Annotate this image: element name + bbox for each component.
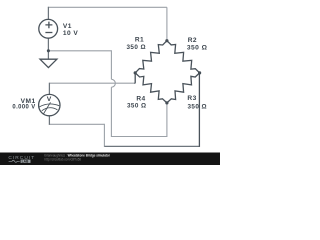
wire V1 bottom to ground xyxy=(47,38,49,59)
svg-text:10 V: 10 V xyxy=(63,30,79,37)
wire V1 top stub xyxy=(47,7,49,20)
svg-text:350 Ω: 350 Ω xyxy=(127,103,147,110)
wire top horizontal xyxy=(48,6,167,8)
voltmeter VM1 circle xyxy=(39,94,60,115)
wire down to VM1 top xyxy=(48,83,50,95)
resistor R3 zigzag xyxy=(167,73,200,103)
svg-text:LAB: LAB xyxy=(22,159,29,163)
wire VM1 bottom right xyxy=(49,123,105,125)
svg-text:http://circuitlab.com/c8f7u58: http://circuitlab.com/c8f7u58 xyxy=(45,157,82,161)
svg-text:350 Ω: 350 Ω xyxy=(187,45,208,52)
node junction below V1 xyxy=(47,49,50,52)
svg-text:350 Ω: 350 Ω xyxy=(126,44,146,51)
wire junction to right xyxy=(48,50,111,52)
ground symbol xyxy=(40,59,57,67)
svg-text:0.000 V: 0.000 V xyxy=(12,104,35,111)
V1 plus sign xyxy=(45,22,52,29)
wire hop over meter wire xyxy=(111,79,115,87)
logo LAB box xyxy=(21,160,31,163)
svg-text:V: V xyxy=(47,96,52,103)
svg-text:R2: R2 xyxy=(188,37,197,44)
wire ground bus down (lower) xyxy=(110,87,112,137)
node bridge right xyxy=(198,71,201,74)
wire VM1 bottom stub xyxy=(48,116,50,125)
VM1 meter arcs xyxy=(39,104,59,107)
svg-text:350 Ω: 350 Ω xyxy=(187,103,207,110)
node bridge bottom xyxy=(165,101,168,104)
wire top-right drop to bridge top xyxy=(166,7,168,40)
wire left node to voltmeter top xyxy=(49,82,134,84)
svg-text:R3: R3 xyxy=(187,95,196,102)
svg-text:R1: R1 xyxy=(135,37,144,44)
logo waveform xyxy=(9,160,20,162)
node bridge left xyxy=(134,71,137,74)
svg-text:R4: R4 xyxy=(136,95,145,102)
VM1 needle xyxy=(43,102,50,114)
wire down step xyxy=(103,124,105,147)
resistor R4 zigzag xyxy=(135,73,167,103)
V1 minus sign xyxy=(45,32,52,34)
wire right riser to right node xyxy=(198,73,200,147)
watermark banner xyxy=(0,153,220,166)
resistor R1 zigzag xyxy=(135,41,167,73)
wire left node jog down xyxy=(133,73,136,83)
wire ground bus right xyxy=(111,136,166,138)
resistor R2 zigzag xyxy=(167,41,200,73)
wire ground bus down (upper) xyxy=(110,50,112,79)
node bridge top xyxy=(165,39,168,42)
wire up to bridge bottom node xyxy=(166,103,168,137)
voltage source V1 circle xyxy=(39,19,58,38)
wire bottom long xyxy=(104,145,199,147)
